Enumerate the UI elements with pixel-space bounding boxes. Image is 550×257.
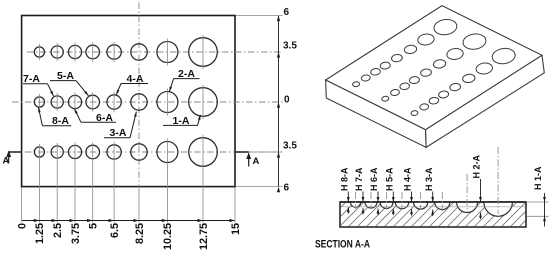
depth dimension H 6-A (377, 192, 379, 203)
svg-text:0: 0 (16, 223, 28, 229)
isometric plate left side face (326, 80, 427, 147)
svg-text:H 3-A: H 3-A (424, 167, 434, 191)
depth dimension H 2-A (480, 179, 482, 202)
hole 1-A top row (189, 38, 218, 67)
svg-text:H 2-A: H 2-A (472, 154, 482, 178)
notch centerline (466, 174, 468, 212)
hole 6-A top row (68, 45, 81, 58)
hole 8-A middle row (34, 97, 44, 107)
svg-text:8.25: 8.25 (134, 223, 146, 244)
extension line plate right corner (234, 188, 236, 223)
extension line plate left corner (21, 188, 23, 223)
svg-text:6: 6 (284, 7, 290, 18)
svg-text:H 6-A: H 6-A (369, 167, 379, 191)
hole 7-A top row (51, 46, 63, 58)
notch centerline (401, 192, 403, 209)
thin reference line below section top edge (341, 206, 525, 208)
hole 3-A bottom row (131, 144, 147, 160)
vertical centerline through 8.25 column (138, 3, 140, 187)
iso hole row 2 #5 (420, 68, 432, 77)
svg-text:6: 6 (284, 183, 290, 194)
svg-text:SECTION A-A: SECTION A-A (315, 239, 370, 251)
svg-text:A: A (3, 156, 10, 167)
depth dimension H 8-A (347, 192, 349, 203)
iso hole row 2 #8 (462, 32, 487, 50)
iso hole row 2 #2 (390, 89, 400, 96)
svg-text:H 1-A: H 1-A (533, 166, 543, 190)
hole 8-A bottom row (34, 147, 44, 157)
hole 5-A bottom row (86, 145, 100, 159)
iso hole row 1 #7 (417, 33, 435, 46)
iso hole row 1 #8 (433, 18, 458, 36)
hole 8-A top row (34, 47, 44, 57)
svg-text:2.5: 2.5 (52, 223, 64, 238)
iso hole row 2 #7 (446, 48, 464, 61)
section arrow A left (9, 151, 22, 153)
iso hole row 3 #5 (449, 83, 461, 92)
hole 5-A middle row (86, 95, 100, 109)
iso hole row 3 #4 (438, 90, 449, 98)
section notch H 7-A half-circle (365, 202, 377, 208)
iso hole row 2 #4 (409, 76, 420, 84)
hole 6-A middle row (68, 95, 81, 108)
hole 2-A top row (157, 42, 178, 63)
section arrow A right (235, 151, 249, 153)
svg-text:H 7-A: H 7-A (354, 167, 364, 191)
isometric plate front face (426, 55, 545, 147)
extension line top edge (236, 15, 283, 17)
row centerline middle row (12, 101, 283, 103)
extension line section trace right (250, 151, 283, 153)
svg-text:H 4-A: H 4-A (403, 167, 413, 191)
iso hole row 3 #1 (411, 110, 419, 116)
svg-text:A: A (253, 156, 260, 167)
svg-text:12.75: 12.75 (198, 223, 210, 250)
svg-text:1.25: 1.25 (34, 223, 46, 244)
iso hole row 1 #1 (352, 81, 360, 87)
svg-text:5: 5 (88, 223, 100, 229)
svg-text:0: 0 (284, 95, 290, 106)
bottom dimension arrows (34, 219, 40, 222)
svg-text:H 5-A: H 5-A (385, 167, 395, 191)
svg-text:3.5: 3.5 (283, 141, 297, 152)
notch centerline (355, 192, 357, 209)
iso hole row 3 #6 (462, 73, 475, 83)
iso hole row 1 #4 (380, 62, 391, 70)
hole 4-A bottom row (107, 145, 121, 159)
extension line below 8.25 column (138, 187, 140, 223)
section top edge redraw (340, 201, 526, 203)
section body rectangle (340, 202, 526, 227)
hole 2-A bottom row (157, 142, 178, 163)
hole 3-A middle row (131, 94, 147, 110)
isometric plate top face (326, 6, 542, 130)
iso hole row 1 #5 (391, 54, 403, 63)
section notch H 4-A half-circle (414, 202, 428, 209)
svg-text:10.25: 10.25 (162, 223, 174, 250)
bottom dimension line (22, 220, 235, 222)
section notch H 3-A half-circle (435, 202, 450, 210)
section notch H 2-A half-circle (457, 202, 478, 213)
notch centerline (420, 192, 422, 210)
section notch H 8-A half-circle (350, 202, 360, 207)
notch centerline (441, 192, 443, 211)
section notch H 1-A half-circle (484, 202, 513, 216)
iso hole row 1 #6 (404, 44, 417, 54)
extension line bottom edge (236, 186, 283, 188)
iso hole row 1 #2 (361, 74, 371, 81)
iso hole row 2 #6 (433, 59, 446, 69)
notch centerline (497, 147, 499, 214)
svg-text:3.75: 3.75 (70, 223, 82, 244)
plate outline (top view) (22, 16, 235, 187)
row centerline top row (27, 51, 283, 53)
svg-text:15: 15 (230, 223, 242, 235)
svg-text:6.5: 6.5 (109, 223, 121, 238)
notch centerline (386, 192, 388, 209)
iso hole row 3 #3 (429, 97, 439, 105)
svg-text:3.5: 3.5 (283, 41, 297, 52)
iso hole row 1 #3 (370, 68, 380, 76)
depth dimension H 7-A (362, 192, 364, 203)
depth dimension H 3-A (432, 192, 434, 203)
hole 5-A top row (86, 45, 100, 59)
right dimension arrows (277, 16, 280, 22)
depth dimension H 4-A (411, 192, 413, 203)
hole 3-A top row (131, 44, 147, 60)
iso hole row 3 #8 (491, 47, 516, 65)
hole 2-A middle row (157, 92, 178, 113)
iso hole row 2 #1 (382, 96, 390, 102)
row centerline bottom row / section trace A-A (12, 151, 283, 153)
hole 7-A middle row (51, 96, 63, 108)
notch centerline (370, 192, 372, 209)
hole 1-A middle row (189, 88, 218, 117)
section notch H 6-A half-circle (380, 202, 393, 209)
iso hole row 3 #2 (419, 103, 429, 110)
depth dimension H 1-A at right (527, 201, 549, 203)
hole 7-A bottom row (51, 146, 63, 158)
svg-text:H 8-A: H 8-A (340, 167, 350, 191)
svg-text:8-A: 8-A (52, 115, 69, 127)
hole 6-A bottom row (68, 145, 81, 158)
right dimension line (278, 16, 280, 187)
iso hole row 2 #3 (400, 82, 410, 90)
depth dimension H 5-A (392, 192, 394, 203)
hole 4-A middle row (107, 95, 121, 109)
iso hole row 3 #7 (475, 62, 493, 75)
hole 1-A bottom row (189, 138, 218, 167)
section notch H 5-A half-circle (395, 202, 408, 209)
hole 4-A top row (107, 45, 121, 59)
